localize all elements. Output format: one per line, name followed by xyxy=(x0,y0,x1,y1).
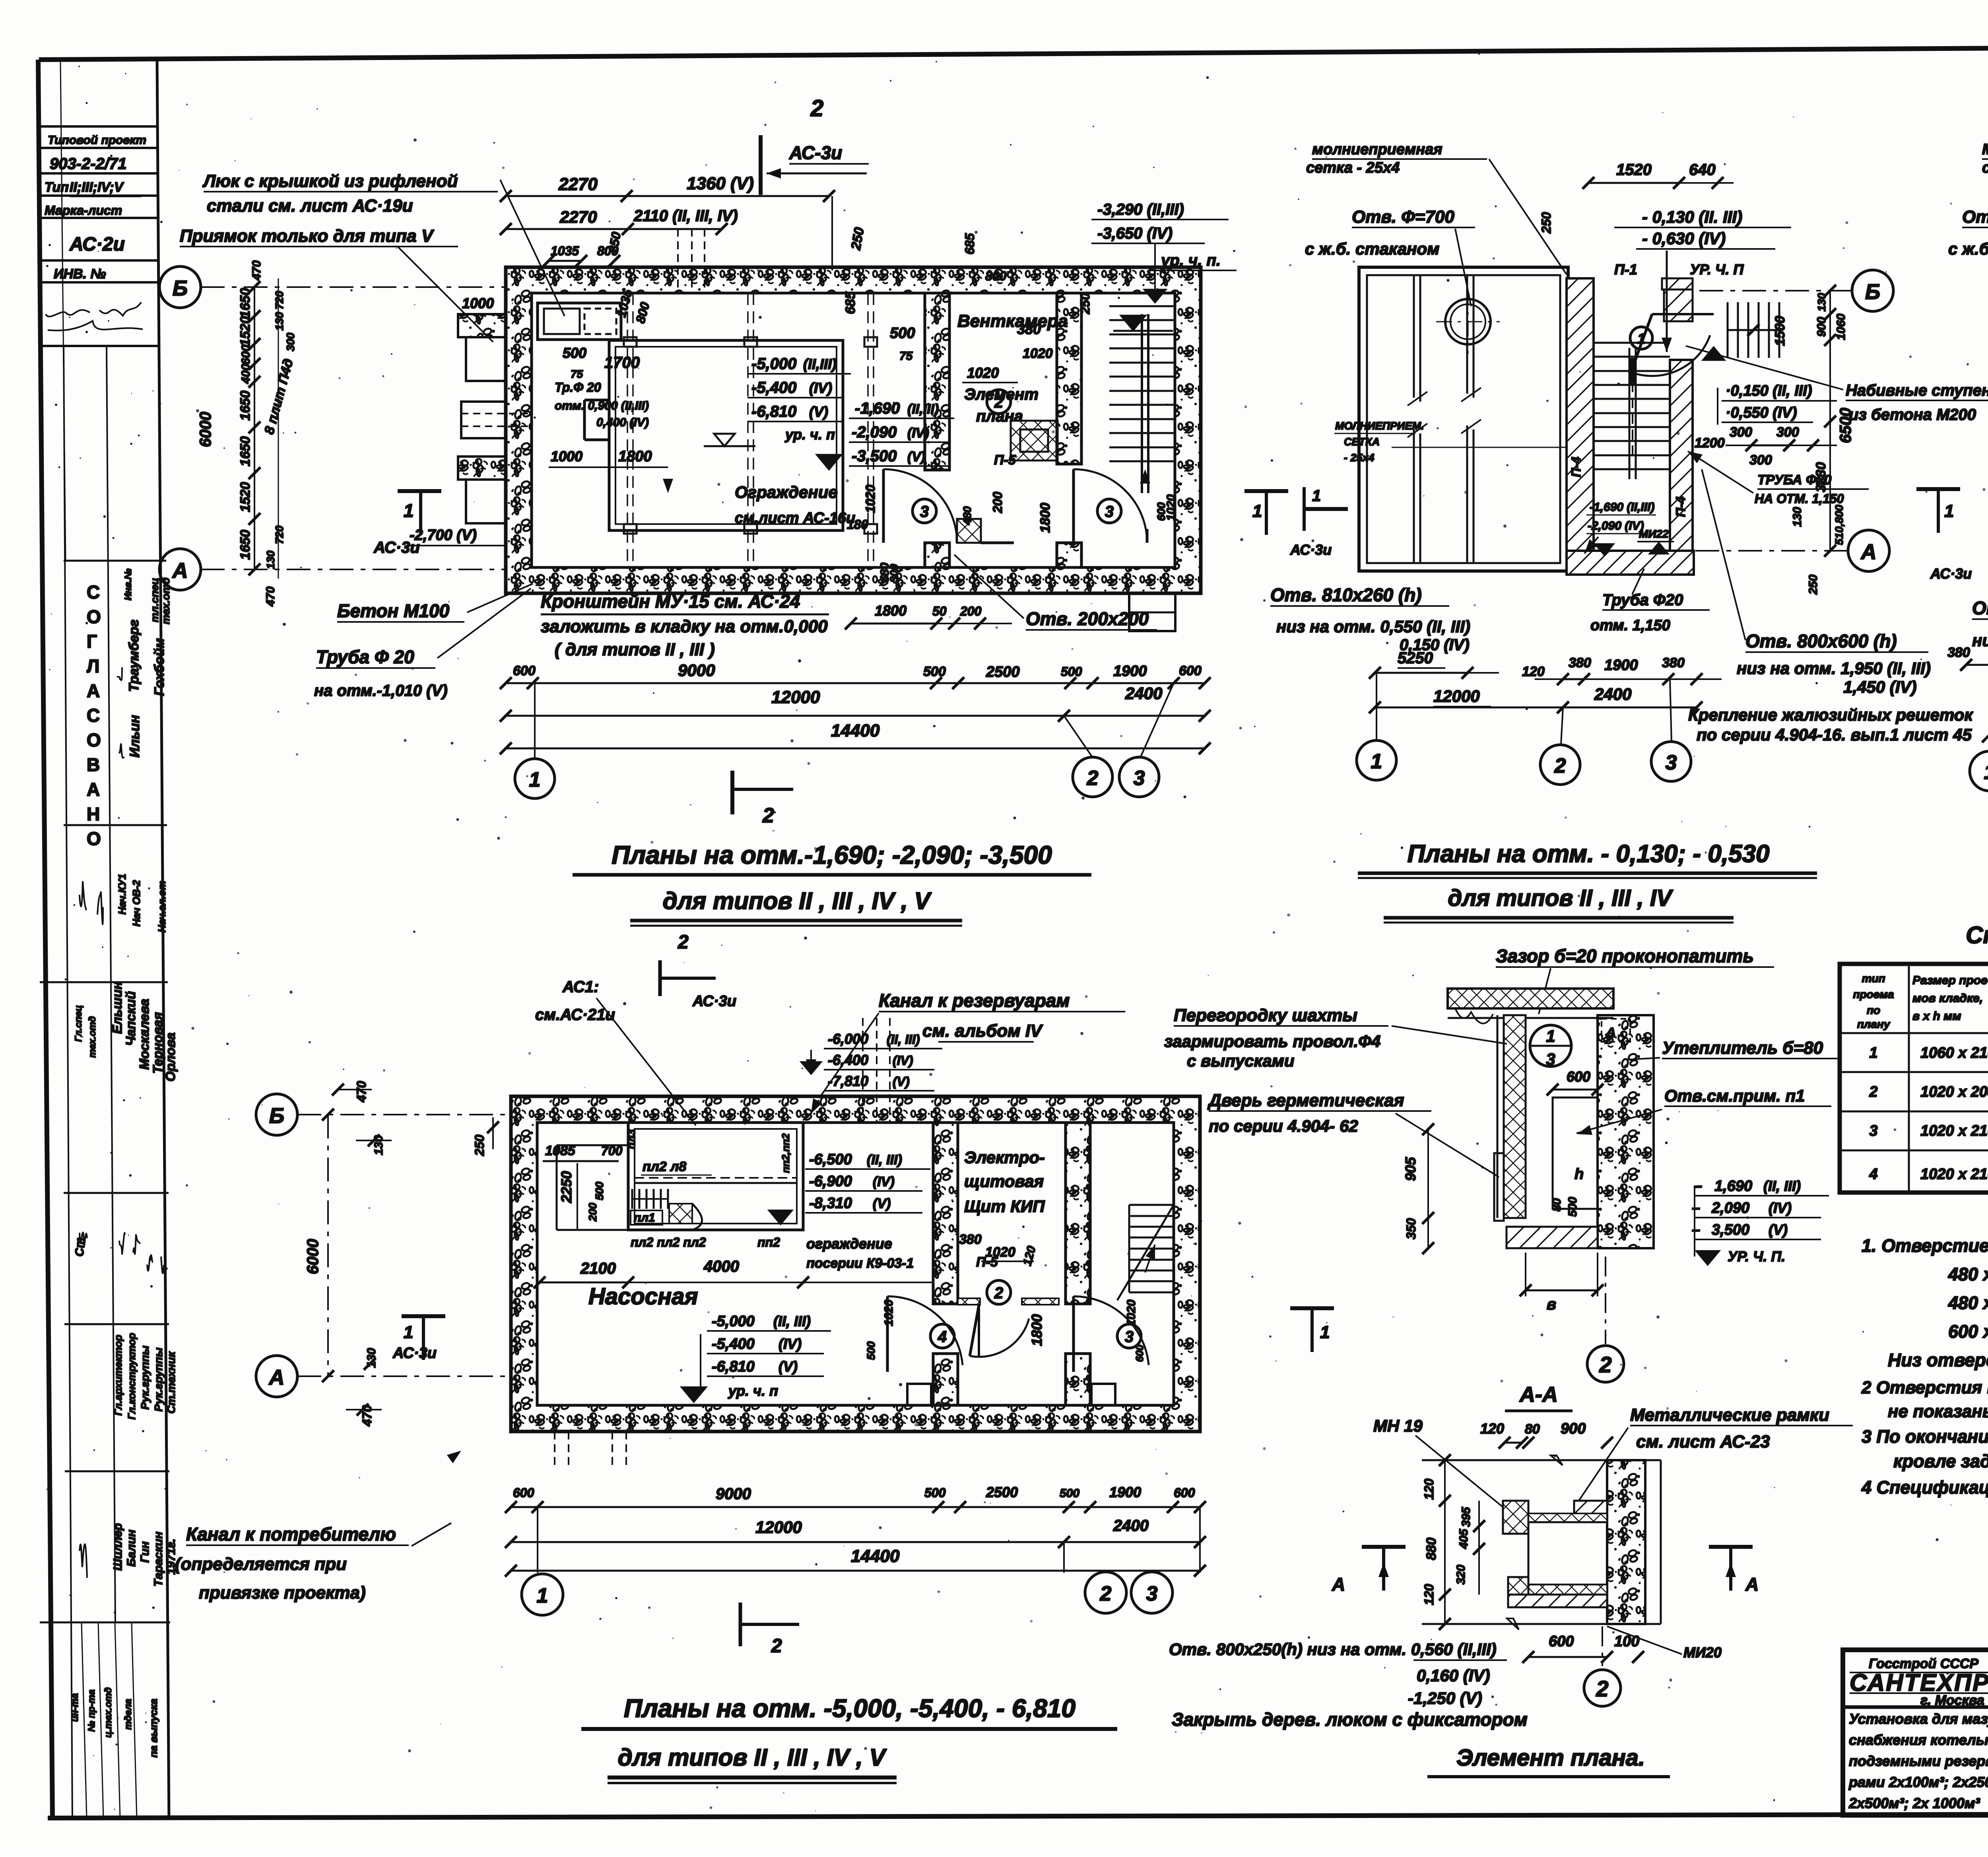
svg-text:Ильин: Ильин xyxy=(127,715,142,758)
svg-text:100: 100 xyxy=(1614,1633,1639,1650)
svg-text:1000: 1000 xyxy=(462,295,494,311)
svg-text:щитовая: щитовая xyxy=(964,1172,1044,1191)
svg-text:-7,810: -7,810 xyxy=(828,1073,868,1089)
svg-text:2: 2 xyxy=(1100,1582,1112,1605)
svg-text:Гл.спец: Гл.спец xyxy=(73,1005,84,1042)
svg-text:МОЛНИЕПРИЕМ.: МОЛНИЕПРИЕМ. xyxy=(1335,420,1424,432)
svg-text:Отв. 800х250(h) низ на отм. 0,: Отв. 800х250(h) низ на отм. 0,560 (II,II… xyxy=(1169,1640,1497,1659)
svg-text:3 По окончании монтажа вытяжн: 3 По окончании монтажа вытяжного воздухо… xyxy=(1862,1426,1988,1447)
plan4 bottom dim chain1 xyxy=(505,1484,1206,1513)
svg-text:1020 х 2080: 1020 х 2080 xyxy=(1920,1084,1988,1100)
svg-text:480: 480 xyxy=(961,506,973,525)
svg-text:380: 380 xyxy=(1017,321,1041,337)
svg-text:по серии 4.904- 62: по серии 4.904- 62 xyxy=(1209,1117,1358,1135)
svg-text:1020: 1020 xyxy=(882,1300,895,1326)
svg-text:Размер прое-: Размер прое- xyxy=(1912,974,1988,987)
plan1 railing (ограждение) rectangle xyxy=(584,340,843,530)
svg-text:Канал к резервуарам: Канал к резервуарам xyxy=(879,990,1070,1011)
detail section circle 2 below xyxy=(1587,1257,1624,1382)
svg-text:380: 380 xyxy=(959,1232,982,1247)
plan2 text молние bottom small xyxy=(1334,420,1567,464)
svg-text:Электро-: Электро- xyxy=(964,1148,1045,1167)
svg-text:А: А xyxy=(1745,1574,1759,1595)
svg-text:6000: 6000 xyxy=(197,412,214,447)
svg-text:3: 3 xyxy=(1146,1582,1158,1605)
plan2 top leader text молниеприемная xyxy=(1306,141,1567,274)
svg-text:по: по xyxy=(1867,1004,1880,1016)
svg-text:300: 300 xyxy=(888,564,900,583)
svg-text:720: 720 xyxy=(273,525,285,544)
plan1 rot dims inside xyxy=(843,291,1178,583)
svg-text:УР. Ч. П: УР. Ч. П xyxy=(1690,261,1744,278)
svg-text:для типов II , III , IV , V: для типов II , III , IV , V xyxy=(663,888,932,914)
svg-text:2400: 2400 xyxy=(1594,685,1631,703)
plan2 opening circle ф700 xyxy=(1436,290,1500,354)
svg-text:-5,000: -5,000 xyxy=(712,1313,755,1330)
svg-text:проема: проема xyxy=(1853,988,1894,1000)
detail circle 1/3 xyxy=(1530,1019,1630,1068)
svg-text:Зазор б=20 проконопатить: Зазор б=20 проконопатить xyxy=(1496,946,1754,966)
notes lines xyxy=(1861,1235,1988,1498)
svg-text:см. лист АС-23: см. лист АС-23 xyxy=(1636,1432,1770,1451)
plan4 door 3 xyxy=(1029,1296,1149,1372)
svg-text:300: 300 xyxy=(1730,425,1752,440)
svg-text:905: 905 xyxy=(1402,1157,1419,1181)
svg-text:АС·3и: АС·3и xyxy=(692,993,736,1010)
svg-text:Щит КИП: Щит КИП xyxy=(964,1197,1045,1216)
svg-text:см.АС·21и: см.АС·21и xyxy=(535,1006,615,1024)
AA dims top xyxy=(1480,1420,1613,1449)
svg-text:Утеплитель б=80: Утеплитель б=80 xyxy=(1662,1038,1823,1058)
svg-text:6500: 6500 xyxy=(1837,408,1854,443)
svg-text:Планы на отм.-1,690; -2,090; -: Планы на отм.-1,690; -2,090; -3,500 xyxy=(612,841,1052,869)
svg-text:80: 80 xyxy=(1525,1422,1540,1437)
svg-text:500: 500 xyxy=(1061,664,1082,679)
plan4 column circles xyxy=(522,1507,1200,1615)
svg-text:МИ22: МИ22 xyxy=(1639,528,1669,540)
svg-text:130: 130 xyxy=(1791,507,1804,527)
svg-text:ур. ч. п: ур. ч. п xyxy=(728,1383,778,1399)
plan1 pit boxes left xyxy=(458,314,533,523)
left strip band dept xyxy=(117,568,172,758)
svg-text:1: 1 xyxy=(1944,501,1954,521)
svg-text:Набивные ступени: Набивные ступени xyxy=(1846,382,1988,399)
door spec table header texts xyxy=(1853,972,1988,1030)
svg-text:Балин: Балин xyxy=(125,1530,138,1567)
svg-text:130: 130 xyxy=(1815,293,1828,311)
left strip band titles xyxy=(112,1333,177,1420)
plan2 п-4 labels xyxy=(1569,261,1744,517)
svg-text:600 х 716 (h) для t н = - 4: 600 х 716 (h) для t н = - 40 xyxy=(1948,1321,1988,1342)
svg-text:14400: 14400 xyxy=(831,721,880,740)
svg-text:Ельшин: Ельшин xyxy=(110,981,124,1034)
svg-text:С: С xyxy=(87,705,100,726)
svg-text:300: 300 xyxy=(1776,425,1799,440)
svg-text:2100: 2100 xyxy=(580,1260,616,1277)
plan4 top labels АС1 xyxy=(535,978,696,1125)
svg-text:6000: 6000 xyxy=(304,1239,322,1274)
plan4 section mark 2 bottom xyxy=(740,1603,799,1657)
svg-text:г. Москва: г. Москва xyxy=(1920,1693,1984,1708)
svg-text:Рук.группы: Рук.группы xyxy=(139,1346,151,1410)
svg-text:14400: 14400 xyxy=(851,1546,900,1566)
svg-text:300: 300 xyxy=(1749,453,1772,468)
svg-text:1900: 1900 xyxy=(1109,1484,1141,1500)
svg-text:Марка-лист: Марка-лист xyxy=(45,203,122,218)
svg-text:пп2: пп2 xyxy=(757,1235,780,1249)
plan4 text Канал к потребителю xyxy=(175,1451,461,1603)
plan1 section mark 1 АС-3и left xyxy=(373,491,441,556)
svg-text:снабжения котельных с: снабжения котельных с xyxy=(1849,1732,1988,1748)
svg-text:на отм.-1,010 (V): на отм.-1,010 (V) xyxy=(314,682,448,699)
AA text Металлические рамки xyxy=(1574,1405,1853,1507)
svg-text:кровле заделать по серии: кровле заделать по серии 2.494-1 вып. 1 … xyxy=(1893,1451,1988,1471)
svg-text:ц.тех.отд: ц.тех.отд xyxy=(103,1687,114,1738)
svg-text:1: 1 xyxy=(1371,750,1382,773)
plan1 right top level note xyxy=(1078,201,1237,315)
plan1 column circles xyxy=(515,683,1174,798)
svg-text:О: О xyxy=(87,730,101,750)
svg-text:3: 3 xyxy=(1869,1123,1877,1139)
svg-text:-2,090: -2,090 xyxy=(852,423,897,441)
svg-text:600: 600 xyxy=(513,1486,534,1500)
svg-text:тл.спец: тл.спец xyxy=(149,578,161,622)
plan3 bottom texts xyxy=(1972,598,1988,706)
plan1 axis Б xyxy=(159,266,506,308)
svg-text:ограждение: ограждение xyxy=(806,1235,892,1252)
plan1 bottom dim chain3 xyxy=(500,721,1211,754)
svg-text:молниеприемная: молниеприемная xyxy=(1312,141,1442,158)
plan2 text Крепление жалюзийных xyxy=(1688,705,1973,744)
left strip lower columns xyxy=(40,346,170,1818)
svg-text:(определяется при: (определяется при xyxy=(175,1554,347,1574)
svg-text:300: 300 xyxy=(284,332,297,351)
svg-text:1020: 1020 xyxy=(985,1245,1015,1260)
svg-text:(II, III): (II, III) xyxy=(773,1313,811,1329)
svg-text:1000: 1000 xyxy=(551,448,582,464)
svg-text:200: 200 xyxy=(990,491,1005,513)
plan2 shaft box thin walls xyxy=(1359,267,1568,571)
svg-text:Л: Л xyxy=(87,656,99,676)
svg-text:250: 250 xyxy=(1539,212,1553,234)
svg-text:600: 600 xyxy=(1179,663,1202,678)
svg-text:МИ20: МИ20 xyxy=(1683,1644,1722,1661)
svg-text:низ на отм. 0,550 (II, III): низ на отм. 0,550 (II, III) xyxy=(1276,617,1470,636)
left strip band signatures xyxy=(73,1232,167,1273)
plan4 level stack -6000 above wall xyxy=(802,1031,942,1091)
svg-text:А: А xyxy=(87,779,100,800)
svg-text:130: 130 xyxy=(273,312,285,330)
svg-text:ур. ч. п: ур. ч. п xyxy=(784,426,835,443)
svg-text:470: 470 xyxy=(250,260,263,281)
plan2 upper stair flight right xyxy=(1728,302,1788,358)
plan1 bottom dim chain1 xyxy=(500,661,1211,689)
svg-text:см.лист АС-16и: см.лист АС-16и xyxy=(735,510,855,526)
plan1 top dim rows xyxy=(500,174,1007,283)
svg-text:1020 х 2100: 1020 х 2100 xyxy=(1920,1123,1988,1139)
plan2 bottom texts left xyxy=(1270,585,1470,668)
plan2 text труба ф20 xyxy=(1688,451,1869,506)
svg-text:1: 1 xyxy=(1312,487,1321,505)
svg-text:для типов II , III , IV , V: для типов II , III , IV , V xyxy=(618,1744,887,1771)
plan4 dashed channel top xyxy=(863,1018,890,1123)
svg-text:О: О xyxy=(87,606,101,627)
svg-text:Г: Г xyxy=(87,631,97,652)
svg-text:А: А xyxy=(87,680,100,701)
svg-text:600: 600 xyxy=(239,345,252,365)
svg-text:Отв. Ф = 700: Отв. Ф = 700 xyxy=(1962,207,1988,227)
svg-text:Рук.группы: Рук.группы xyxy=(152,1348,165,1412)
svg-text:1: 1 xyxy=(537,1584,548,1607)
svg-text:Типовой проект: Типовой проект xyxy=(48,134,146,147)
svg-text:не показаны. см. развертки сте: не показаны. см. развертки стен на листа… xyxy=(1888,1402,1988,1421)
svg-text:75: 75 xyxy=(571,368,583,380)
plan4 platform stairs xyxy=(632,1178,797,1230)
svg-text:низ на отм. - 1, 260: низ на отм. - 1, 260 xyxy=(1972,631,1988,650)
plan2 level 0,150 box xyxy=(1718,383,1837,425)
plan4 dims 2100 4000 xyxy=(534,1258,932,1288)
svg-text:отм. 0,900 (II,III): отм. 0,900 (II,III) xyxy=(555,399,649,412)
svg-text:(V): (V) xyxy=(809,404,828,420)
svg-text:685: 685 xyxy=(843,291,858,314)
svg-text:-3,650 (IV): -3,650 (IV) xyxy=(1097,225,1173,242)
plan2 axis Б xyxy=(1694,270,1893,311)
svg-text:Металлические рамки: Металлические рамки xyxy=(1630,1405,1829,1425)
svg-text:1: 1 xyxy=(1252,501,1262,521)
plan1 door 3 left xyxy=(883,469,957,543)
svg-text:1,450 (IV): 1,450 (IV) xyxy=(1843,678,1916,696)
svg-text:Ст.техник: Ст.техник xyxy=(165,1351,177,1414)
svg-text:АС·3и: АС·3и xyxy=(392,1345,437,1362)
svg-text:380: 380 xyxy=(1662,655,1685,670)
svg-text:2 Отверстия в бетонных и желе: 2 Отверстия в бетонных и железобетонных … xyxy=(1861,1378,1988,1397)
svg-text:2: 2 xyxy=(762,804,774,827)
plan2 stair treads xyxy=(1594,343,1670,479)
svg-text:2: 2 xyxy=(1596,1676,1608,1701)
svg-text:пл1: пл1 xyxy=(634,1211,655,1224)
svg-text:Отв.см.прим. п1: Отв.см.прим. п1 xyxy=(1664,1086,1805,1105)
svg-text:А: А xyxy=(172,559,188,583)
plan1 hatch opening top-left (люк) xyxy=(538,303,621,340)
svg-text:700: 700 xyxy=(601,1144,623,1158)
svg-text:1650: 1650 xyxy=(238,288,253,318)
svg-text:САНТЕХПРОЕКТ: САНТЕХПРОЕКТ xyxy=(1850,1669,1988,1696)
svg-text:3: 3 xyxy=(920,503,929,521)
svg-text:1: 1 xyxy=(404,1323,413,1342)
svg-text:250: 250 xyxy=(472,1134,487,1156)
svg-text:2,090: 2,090 xyxy=(1711,1200,1749,1216)
left strip band names xyxy=(73,981,178,1082)
plan3 top leader text молниеприемная xyxy=(1982,141,1988,278)
svg-text:пл2 л8: пл2 л8 xyxy=(643,1159,686,1174)
svg-text:·0,150 (II, III): ·0,150 (II, III) xyxy=(1726,383,1812,399)
svg-text:П-5: П-5 xyxy=(994,453,1016,468)
svg-text:3230: 3230 xyxy=(1813,462,1829,492)
title block org cell xyxy=(1850,1656,1988,1708)
plan2 bottom dims xyxy=(1369,655,1722,713)
svg-text:- 0,630 (IV): - 0,630 (IV) xyxy=(1642,229,1726,248)
svg-text:подземными резервуа-: подземными резервуа- xyxy=(1849,1753,1988,1769)
plan2 door top arc xyxy=(1630,314,1724,376)
svg-text:пл3: пл3 xyxy=(625,1129,637,1149)
svg-text:Нач.КУ1: Нач.КУ1 xyxy=(116,874,128,915)
svg-text:4 Спецификацию перемычек см: 4 Спецификацию перемычек см. лист АС· 4и xyxy=(1861,1477,1988,1498)
svg-text:200: 200 xyxy=(960,604,982,618)
svg-text:из бетона М200: из бетона М200 xyxy=(1849,406,1976,423)
svg-text:4000: 4000 xyxy=(703,1258,739,1275)
svg-text:-1,690 (II,III): -1,690 (II,III) xyxy=(1590,501,1654,514)
svg-text:заложить в кладку на отм.0,000: заложить в кладку на отм.0,000 xyxy=(541,617,828,636)
plan2 stair shaft walls hatched xyxy=(1567,278,1694,575)
svg-text:Нач.зл.от: Нач.зл.от xyxy=(156,881,168,932)
svg-text:250: 250 xyxy=(1078,293,1092,315)
svg-text:2: 2 xyxy=(1554,754,1566,777)
plan4 text Электрощитовая xyxy=(964,1148,1045,1216)
svg-text:Планы на отм. - 0,130; - 0,53: Планы на отм. - 0,130; - 0,530 xyxy=(1408,840,1770,868)
svg-text:1060: 1060 xyxy=(1835,313,1848,340)
svg-text:-5,400: -5,400 xyxy=(751,379,796,396)
svg-text:(IV): (IV) xyxy=(779,1336,802,1352)
svg-text:стали см. лист АС·19и: стали см. лист АС·19и xyxy=(207,196,413,216)
svg-text:Планы на отм. -5,000, -5,400,: Планы на отм. -5,000, -5,400, - 6,810 xyxy=(624,1694,1076,1723)
svg-text:2270: 2270 xyxy=(559,208,597,226)
svg-text:1,690: 1,690 xyxy=(1714,1178,1752,1195)
svg-text:Гохбойм: Гохбойм xyxy=(152,638,167,696)
svg-text:600: 600 xyxy=(1174,1486,1195,1500)
plan2 text Труба ф20 отм 1150 xyxy=(1590,569,1710,634)
svg-text:Бетон М100: Бетон М100 xyxy=(337,600,450,621)
svg-text:-3,290 (II,III): -3,290 (II,III) xyxy=(1097,201,1184,218)
AA circle 2 xyxy=(1584,1626,1621,1706)
svg-text:Труба Ф20: Труба Ф20 xyxy=(1602,591,1683,609)
title block grid xyxy=(1843,1650,1988,1815)
svg-text:500: 500 xyxy=(923,664,946,679)
svg-text:низ на отм. 1,950 (II, III): низ на отм. 1,950 (II, III) xyxy=(1737,659,1931,678)
svg-text:600: 600 xyxy=(1567,1068,1590,1085)
plan4 stair corner xyxy=(1117,1205,1174,1300)
svg-text:с ж.б. стаканом: с ж.б. стаканом xyxy=(1305,239,1439,258)
door spec table rows xyxy=(1869,1045,1988,1191)
plan1 shaft detail П-5 xyxy=(987,390,1058,468)
svg-text:Приямок только для типа V: Приямок только для типа V xyxy=(180,226,435,246)
svg-text:Люк с крышкой из рифленой: Люк с крышкой из рифленой xyxy=(202,171,458,191)
svg-text:1085: 1085 xyxy=(545,1143,576,1158)
svg-text:720: 720 xyxy=(273,291,285,309)
svg-text:h: h xyxy=(1574,1166,1584,1183)
svg-text:(II, III): (II, III) xyxy=(887,1032,920,1047)
svg-text:1200: 1200 xyxy=(1695,435,1725,451)
svg-text:2: 2 xyxy=(678,932,689,953)
plan1 exterior stoop bottom right xyxy=(1129,593,1175,631)
svg-text:Дверь герметическая: Дверь герметическая xyxy=(1207,1091,1404,1110)
svg-text:ур. ч. п.: ур. ч. п. xyxy=(1160,252,1221,269)
svg-text:по серии 4.904-16. вып.1 лист: по серии 4.904-16. вып.1 лист 45 xyxy=(1697,725,1972,744)
svg-text:3: 3 xyxy=(1134,767,1145,790)
plan4 door 4 xyxy=(819,1296,963,1372)
svg-text:АС·3и: АС·3и xyxy=(1290,542,1332,558)
svg-text:Гл.архитектор: Гл.архитектор xyxy=(112,1335,124,1416)
svg-text:Отв. 800х600 (h): Отв. 800х600 (h) xyxy=(1745,631,1897,651)
plan2 text Набивные ступени xyxy=(1686,346,1988,423)
svg-text:200: 200 xyxy=(586,1202,599,1222)
svg-text:2: 2 xyxy=(994,1284,1003,1302)
plan2 dim 1520 640 xyxy=(1582,161,1734,189)
svg-text:(IV): (IV) xyxy=(873,1174,895,1189)
svg-text:1500: 1500 xyxy=(1773,316,1788,346)
svg-text:(II, III): (II, III) xyxy=(1763,1178,1801,1194)
svg-text:Элемент плана.: Элемент плана. xyxy=(1456,1745,1645,1771)
svg-text:- 0,130 (II. III): - 0,130 (II. III) xyxy=(1642,208,1742,226)
svg-text:(II,III): (II,III) xyxy=(803,356,837,372)
left strip bottom band xyxy=(70,1622,159,1818)
svg-text:880: 880 xyxy=(1424,1538,1439,1560)
svg-text:па выпуска: па выпуска xyxy=(148,1699,159,1758)
svg-text:350: 350 xyxy=(1404,1218,1418,1239)
plan4 vestibule step notches bottom xyxy=(907,1384,1115,1405)
svg-text:Молниеприемная: Молниеприемная xyxy=(1982,141,1988,158)
detail dims xyxy=(1402,1068,1604,1313)
door spec table grid xyxy=(1840,964,1988,1193)
svg-text:900: 900 xyxy=(1815,317,1828,337)
svg-text:плану: плану xyxy=(1857,1018,1891,1030)
plan3 text Отв ф700 xyxy=(1948,207,1988,302)
plan1 section mark 2 top xyxy=(761,95,869,195)
svg-text:1650: 1650 xyxy=(238,390,253,421)
svg-text:в: в xyxy=(1547,1296,1556,1313)
svg-text:500: 500 xyxy=(563,345,586,361)
plan1 axis А xyxy=(159,549,506,590)
svg-text:Отв.810х 260 (h): Отв.810х 260 (h) xyxy=(1972,598,1988,618)
svg-text:685: 685 xyxy=(963,233,977,254)
svg-text:1900: 1900 xyxy=(1113,663,1147,680)
plan3 bottom dims xyxy=(1947,645,1988,760)
svg-text:470: 470 xyxy=(360,1405,374,1427)
svg-text:380: 380 xyxy=(1947,645,1970,660)
svg-text:1520: 1520 xyxy=(238,482,253,512)
left strip band nach xyxy=(80,874,168,932)
svg-text:Нач ОВ-2: Нач ОВ-2 xyxy=(130,880,142,927)
svg-text:(V): (V) xyxy=(907,449,925,464)
svg-text:120: 120 xyxy=(1522,664,1545,679)
svg-text:–: – xyxy=(1692,1200,1700,1216)
plan1 bottom dim chain2 xyxy=(500,684,1211,722)
svg-text:4: 4 xyxy=(1869,1166,1877,1183)
AA section marks А xyxy=(1332,1547,1759,1595)
svg-text:2250: 2250 xyxy=(558,1171,575,1203)
svg-text:П-4: П-4 xyxy=(1569,456,1583,477)
svg-text:Н: Н xyxy=(87,804,100,824)
plan4 text Канал к резервуарам xyxy=(811,990,1125,1113)
plan2 dims 300 300 xyxy=(1695,425,1837,468)
svg-text:П-4: П-4 xyxy=(1673,496,1688,517)
svg-text:2: 2 xyxy=(994,394,1003,411)
svg-text:Б: Б xyxy=(173,276,188,300)
svg-text:1: 1 xyxy=(1869,1045,1877,1061)
svg-text:1020: 1020 xyxy=(1165,494,1178,521)
detail leader texts right xyxy=(1576,1038,1841,1135)
svg-text:120: 120 xyxy=(1480,1420,1504,1437)
svg-text:Перегородку шахты: Перегородку шахты xyxy=(1174,1006,1357,1025)
svg-text:250: 250 xyxy=(1807,575,1820,595)
plan4 level stack right of platform xyxy=(769,1151,930,1224)
svg-text:О: О xyxy=(87,828,101,849)
svg-text:12000: 12000 xyxy=(755,1518,802,1536)
svg-text:посерии К9-03-1: посерии К9-03-1 xyxy=(806,1256,914,1271)
approval signatures top xyxy=(46,302,143,330)
plan4 wall hall/electrical xyxy=(933,1123,958,1405)
plan1 door 3 right xyxy=(1074,469,1147,543)
svg-text:600: 600 xyxy=(1549,1633,1574,1650)
